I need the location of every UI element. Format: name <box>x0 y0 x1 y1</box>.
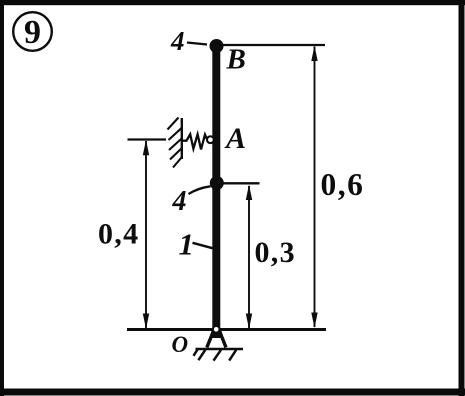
wall line for spring anchor <box>181 118 183 159</box>
support hatching <box>194 350 237 361</box>
leader line from lower 4 to ball <box>189 186 211 194</box>
svg-text:4: 4 <box>170 26 185 56</box>
leader line from top 4 to ball B <box>187 43 207 45</box>
ball B (mass 4 at top) <box>210 39 224 53</box>
ball 4 (slider on rod, lower) <box>210 176 224 190</box>
svg-text:0,6: 0,6 <box>321 167 365 202</box>
svg-text:0,3: 0,3 <box>255 236 296 269</box>
dimension line 0,4 <box>143 140 149 329</box>
ground line <box>127 328 326 331</box>
reference line at spring level (left, for 0,4) <box>128 138 167 140</box>
wall hatching <box>168 118 182 168</box>
leader line from label 1 to rod <box>193 243 213 248</box>
pin hole at O <box>213 326 220 333</box>
svg-text:1: 1 <box>179 227 195 262</box>
svg-text:B: B <box>226 44 246 76</box>
extension line from B to 0,6 dimension <box>222 44 325 46</box>
rod 1 <box>212 46 220 333</box>
dimension line 0,6 <box>311 46 317 329</box>
spring attachment pin circle at A <box>207 136 214 143</box>
svg-text:9: 9 <box>24 14 41 51</box>
svg-text:A: A <box>224 122 246 155</box>
svg-text:4: 4 <box>172 186 187 217</box>
extension line from lower ball to 0,3 dimension <box>223 182 260 184</box>
svg-text:O: O <box>172 332 189 357</box>
variant number badge 9 <box>13 12 52 51</box>
svg-text:0,4: 0,4 <box>98 218 139 251</box>
pin support apex fill <box>210 331 224 338</box>
spring (zigzag) <box>182 134 208 149</box>
pin support triangle at O <box>207 331 226 348</box>
support base line <box>196 348 244 350</box>
dimension line 0,3 <box>246 185 252 330</box>
